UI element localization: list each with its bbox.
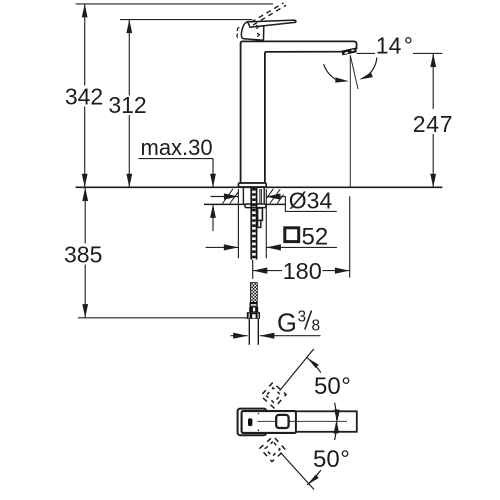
G3/8 left dimension line [231, 335, 248, 337]
mounting nut lower tab [258, 220, 261, 227]
arrow sq52 left [224, 244, 239, 250]
dashed raised lever line 2 [253, 5, 286, 25]
arrow 342 top [82, 4, 88, 18]
svg-text:8: 8 [312, 317, 321, 334]
aerator block with highlights [342, 48, 357, 56]
50deg arc lower seg2 [335, 423, 337, 440]
hole wall right [263, 187, 265, 204]
arrow 312 bottom [126, 174, 132, 188]
extension line base left [237, 189, 239, 258]
svg-text:247: 247 [413, 111, 453, 137]
extension line 312 level [120, 19, 252, 21]
arrow dia34 right [266, 194, 281, 200]
arrow 247 bottom [430, 174, 436, 188]
dashed rotated square upper outer [261, 382, 286, 407]
hose end reference line [78, 317, 248, 319]
dimension line 180 [253, 270, 350, 272]
stream right arc arrow [365, 57, 377, 77]
grip sketch marks [237, 25, 260, 37]
hose braid [250, 283, 257, 303]
dimension line 247 [432, 54, 434, 188]
max.30 leader underline [139, 159, 214, 187]
handle grip (sketchy) [241, 22, 263, 40]
14deg reference line [357, 52, 443, 54]
hose upper nut [249, 307, 258, 312]
dia34 left dimension line [211, 196, 239, 198]
stream left arc arrow [324, 64, 341, 82]
G3/8 right dimension line [260, 335, 321, 337]
dashed rotated square lower inner [265, 442, 280, 457]
arrow 385 bottom [82, 304, 88, 318]
top view: centerline [258, 420, 348, 422]
arc arrow lower bottom [307, 475, 318, 485]
svg-text:max.30: max.30 [141, 135, 213, 160]
top view: spout [296, 411, 357, 432]
svg-text:14°: 14° [376, 32, 413, 58]
dimension line 385 [84, 188, 86, 318]
faucet body outline [241, 41, 357, 183]
extension line 180 right (stream) [349, 196, 351, 277]
arrow G38 left [233, 333, 248, 339]
hose ferrule [250, 302, 258, 306]
top view: handle pill [248, 418, 252, 426]
supply pipe [249, 319, 258, 345]
washer plate [245, 204, 266, 208]
svg-text:50°: 50° [313, 446, 350, 473]
hose centerline extension [252, 260, 254, 279]
threaded stud [250, 188, 252, 260]
dashed rotated square upper inner [266, 388, 281, 403]
arrow 180 left [253, 268, 267, 274]
arrow max30 down [210, 174, 216, 188]
svg-text:52: 52 [302, 224, 329, 251]
grip inner line [251, 26, 264, 28]
counter hatching left [223, 189, 284, 204]
counter bottom line [204, 203, 286, 205]
svg-text:342: 342 [65, 84, 103, 110]
shank inner line [259, 189, 261, 204]
svg-text:G: G [277, 310, 297, 338]
water stream vertical line [349, 55, 351, 186]
counter hatching right [266, 189, 273, 199]
svg-text:50°: 50° [314, 373, 351, 400]
50deg arc upper seg1 [307, 358, 321, 373]
dia34 right leader with underline [266, 197, 337, 212]
arc arrow upper bottom [334, 409, 340, 423]
arrow max30 up [210, 204, 216, 218]
arrow G38 right [260, 333, 275, 339]
top view: cartridge square [276, 415, 288, 428]
max.30 lower arrow shaft [212, 205, 214, 232]
50deg diagonal line upper [280, 349, 314, 391]
arrow 180 right [335, 268, 350, 274]
arrow sq52 right [266, 244, 281, 250]
50deg arc lower seg1 [307, 470, 321, 485]
under-counter: hole wall left [242, 187, 244, 204]
handle lever blade [248, 20, 296, 27]
svg-text:3: 3 [298, 308, 307, 325]
stream tilted 14deg line [350, 55, 358, 89]
top view: pivot dots [258, 413, 260, 415]
counter top line [76, 186, 443, 188]
svg-text:180: 180 [283, 258, 322, 284]
arrow 342 bottom [82, 174, 88, 188]
square symbol of 52 [285, 228, 299, 242]
arrow 385 top [82, 188, 88, 202]
white break under 14deg [375, 50, 413, 55]
dimension line 312 [128, 20, 130, 187]
dashed rotated square lower outer [260, 436, 285, 461]
svg-text:385: 385 [64, 241, 102, 267]
extension line top (342 level) [76, 3, 273, 5]
arrow dia34 left [224, 193, 239, 199]
extension line base right [265, 189, 267, 258]
svg-text:Ø34: Ø34 [289, 187, 333, 213]
fraction slash of G3/8 [305, 311, 312, 330]
50deg arc upper seg2 [335, 403, 337, 420]
sq52 right dimension line [266, 246, 337, 248]
white breaks for texts on lines [63, 86, 456, 470]
dimension line 342 [84, 4, 86, 187]
top view: housing [242, 411, 296, 433]
sq52 left dimension line [206, 246, 238, 248]
arrow 312 top [126, 20, 132, 33]
arrow 247 top [430, 54, 436, 68]
mounting nut right block [258, 208, 263, 220]
dashed raised lever line 1 [251, 3, 284, 22]
base plate [238, 183, 266, 187]
top view: handle outline [238, 409, 267, 436]
arc arrow upper top [307, 358, 318, 368]
50deg diagonal line lower [281, 453, 315, 490]
svg-text:312: 312 [108, 92, 146, 118]
arc arrow lower top [334, 420, 340, 434]
hose hex nut [247, 312, 260, 319]
